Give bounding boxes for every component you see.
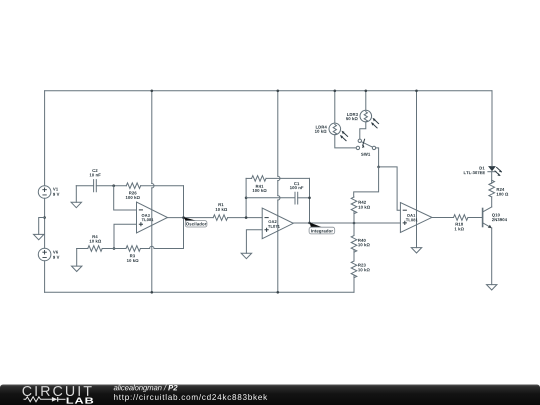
switch SW1 [356,139,376,149]
value label C2 [92,169,97,172]
wire R23 to bottom rail [353,275,355,292]
node R4/R3 junction [113,247,116,250]
wire LDR3 bottom to switch common [360,122,366,139]
resistor R23 [351,261,357,278]
wire OA1 power rail to ground [416,91,418,248]
footer bar [0,385,540,405]
wire LDR4 top [334,91,336,123]
value label SW1 [361,153,370,156]
ground mid-supply [34,234,44,239]
resistor R24 [489,180,495,197]
resistor R18 [454,215,468,221]
voltage source V1 [38,186,51,199]
wire OA1 output [432,217,454,219]
wire OA3 output [168,217,214,219]
node OA2 inverting input [245,216,248,219]
resistor R41 [252,176,266,182]
wire R40 to R23 [353,250,355,261]
logo diode [52,397,58,402]
wire C2 to node [96,185,126,187]
resistor R4 [88,246,102,252]
wire R41 right [266,177,310,179]
node LDR4 rail tap [334,90,337,93]
logo text LAB [67,398,94,404]
wire R42 to junction [353,211,355,223]
value label TL081 [142,218,154,221]
node C2/R26 junction [112,184,115,187]
node mid-supply junction [43,216,46,219]
value label 10 kΩ [358,206,370,209]
value label 9 V [53,193,59,196]
value label LDR3 [347,113,358,116]
value label R41 [256,185,264,188]
value label R3 [130,254,135,257]
wire C1 left lead [246,197,295,199]
value label 10 kΩ [315,130,327,133]
wire emitter down [491,228,493,285]
wire R41/C1 left vertical [245,178,247,217]
wire left rail to V1 [44,91,46,186]
value label D1 [480,167,485,170]
photoresistor LDR4 [329,123,348,141]
capacitor C1 [295,192,298,204]
value label V6 [53,251,58,254]
wire R4 to node [102,248,114,250]
rail through OA3 with hop [151,91,153,184]
resistor R1 [213,215,227,221]
ground R4 [72,249,82,272]
wire C2 left [76,185,93,187]
wire R24 to LED cathode [491,172,493,184]
op-amp OA1 [400,203,432,233]
value label V1 [53,188,58,191]
capacitor C2 [94,180,97,192]
node C1 left [245,197,248,200]
wire inverting input drop [114,186,137,210]
footer author P2 [168,385,177,390]
flag Integrador [309,223,335,234]
rail through OA2 with hops [277,91,279,176]
value label 10 kΩ [90,240,102,243]
resistor R40 [351,236,357,253]
wire feedback vertical [183,186,185,249]
node rail top tap [277,90,280,93]
node OA1 power tap [415,90,418,93]
value label 50 kΩ [346,117,358,120]
voltage source V6 [38,248,51,261]
footer url text [114,394,267,402]
value label OA2 [268,220,276,223]
wire OA2 output run [293,222,400,224]
node rail bottom tap [151,291,154,294]
wire R1 to OA2 inverting [228,217,263,219]
value label OA3 [142,214,150,217]
value label R23 [358,264,365,267]
flag Oscilador [184,217,207,227]
wire feedback right vertical [309,178,311,223]
wire LDR4 bottom to switch left throw [335,135,356,148]
value label 10 kΩ [127,259,139,262]
value label 100 kΩ [253,189,267,192]
value label C1 [294,182,299,185]
wire LDR3 top [365,91,367,111]
wire V1 bottom to V6 top [44,198,46,248]
component value labels [53,113,508,271]
node rail top tap [151,90,154,93]
value label Q10 [492,213,500,217]
value label R1 [218,203,223,206]
resistor R3 [126,246,140,252]
wire R41 left lead [246,177,252,179]
value label R4 [92,235,97,238]
value label 1 kΩ [455,227,464,230]
wire collector to R24 [491,197,493,207]
node rail bottom tap [277,291,280,294]
value label 10 kΩ [216,208,228,211]
value label OA1 [407,214,415,217]
node switch output [377,166,380,169]
wire R3 right with hop over rail [140,248,149,250]
photoresistor LDR3 [360,110,379,128]
node integrator output [308,222,311,225]
resistor R26 [126,183,140,189]
value label R42 [358,201,365,204]
value label R40 [358,239,365,242]
transistor Q10 [483,207,492,228]
value label R24 [497,188,505,191]
value label 10 kΩ [358,243,370,246]
value label LTL-307EE [464,171,485,174]
value label 100 Ω [497,193,509,196]
ground OA2 noninverting [241,253,251,258]
logo text CIRCUIT [23,386,92,396]
wire R4 left [77,248,88,250]
ground Q10 emitter [487,285,497,290]
node divider junction [353,222,356,225]
ground OA1 negative supply [411,248,421,253]
wire ground jog [39,218,45,235]
value label 10 kΩ [358,268,370,271]
wire node to R3 [114,248,126,250]
wire R18 to base [468,217,482,219]
wire junction to R40 [353,223,355,236]
node oscillator output [182,216,185,219]
wire switch right throw to node [376,148,379,167]
wire top +9V rail [45,90,492,92]
wire C1 right lead [298,197,310,199]
ground C2 [71,186,81,208]
wire noninverting input [114,224,137,248]
value label 100 kΩ [126,196,140,199]
value label TL081 [406,219,418,222]
LED D1 [488,166,502,176]
value label R26 [129,191,136,194]
op-amp OA3 [137,202,168,233]
wire LED anode to top rail [491,91,493,166]
wire R26 right to feedback vertical [141,185,184,187]
value label TL071 [268,225,280,228]
wire node down to divider top [354,167,379,197]
value label 2N3904 [492,218,507,221]
wire OA2 noninverting to ground [246,230,262,254]
footer author text [114,385,167,392]
node LDR3 rail tap [365,90,368,93]
logo resistor zigzag [24,397,52,402]
value label R18 [456,223,463,226]
op-amp OA2 [262,208,293,239]
value label 10 nF [90,173,101,176]
value label 100 nF [290,186,303,189]
wire node to OA1 inverting input [379,167,401,210]
wire V6 bottom to bottom rail [44,261,46,293]
resistor R42 [351,197,357,214]
value label 9 V [53,256,59,259]
node C1 right [308,197,311,200]
value label LDR4 [316,126,327,129]
wire bottom -9V rail [45,291,354,293]
